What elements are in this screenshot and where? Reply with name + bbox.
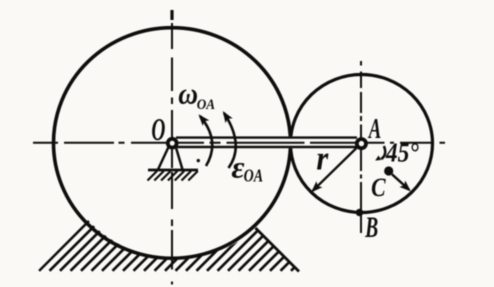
svg-text:r: r	[316, 139, 328, 177]
svg-text:OA: OA	[197, 96, 215, 113]
svg-text:OA: OA	[244, 167, 263, 186]
svg-text:ε: ε	[231, 150, 244, 184]
svg-text:O: O	[151, 112, 165, 147]
svg-text:C: C	[371, 173, 386, 203]
svg-text:A: A	[367, 113, 381, 145]
svg-text:B: B	[364, 212, 378, 244]
svg-text:45°: 45°	[385, 137, 419, 168]
svg-text:ω: ω	[178, 77, 198, 111]
